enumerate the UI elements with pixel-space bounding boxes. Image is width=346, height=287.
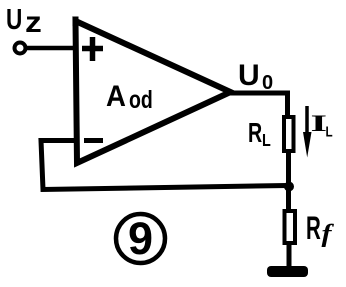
label Uz — [6, 2, 42, 38]
svg-text:0: 0 — [262, 72, 273, 94]
label A_od — [106, 80, 153, 114]
svg-text:9: 9 — [128, 213, 153, 264]
wire junction to Rf — [286, 186, 291, 212]
label RL — [248, 118, 271, 151]
op-amp A_od — [76, 17, 231, 164]
svg-text:U: U — [238, 59, 260, 92]
op-amp + input marker — [82, 37, 103, 61]
svg-text:R: R — [306, 210, 321, 246]
label IL — [311, 111, 333, 139]
wire RL bottom to junction — [286, 151, 291, 188]
label Rf — [306, 210, 335, 247]
resistor RL — [284, 117, 294, 151]
svg-text:A: A — [106, 80, 126, 113]
svg-text:U: U — [6, 2, 22, 35]
svg-text:L: L — [326, 123, 333, 140]
feedback wire junction to op-amp - input — [41, 141, 287, 190]
wire Rf to ground — [287, 243, 292, 270]
op-amp - input marker — [84, 138, 103, 143]
input terminal Uz — [15, 43, 26, 54]
ground — [267, 266, 308, 277]
svg-text:od: od — [129, 86, 153, 114]
figure number 9 — [116, 213, 165, 264]
junction node — [284, 182, 294, 192]
svg-text:R: R — [248, 118, 262, 149]
svg-text:I: I — [311, 111, 328, 136]
resistor Rf — [285, 211, 296, 243]
wire op-amp output to RL (node U0) — [229, 93, 288, 116]
label U0 — [238, 59, 273, 94]
svg-text:L: L — [262, 131, 271, 151]
svg-text:z: z — [25, 5, 42, 39]
current arrow IL — [303, 106, 312, 158]
wire Uz terminal to op-amp + input — [26, 46, 75, 51]
